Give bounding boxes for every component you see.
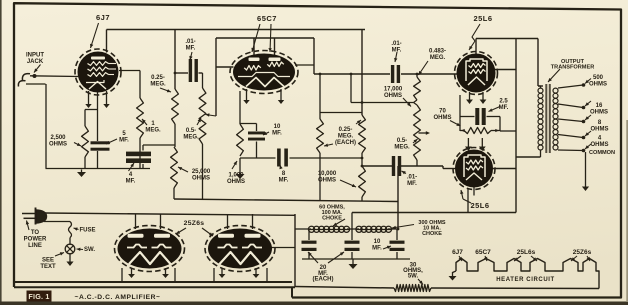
svg-text:OHMS: OHMS [589,82,607,88]
svg-text:MF.: MF. [272,131,282,137]
svg-text:MEG.: MEG. [338,134,354,140]
svg-text:TO: TO [31,230,40,236]
svg-text:MEG.: MEG. [430,55,446,61]
svg-text:1,000: 1,000 [228,173,244,179]
svg-text:65C7: 65C7 [257,14,277,23]
svg-text:MF.: MF. [407,181,417,187]
svg-text:(EACH): (EACH) [335,140,356,146]
svg-text:FUSE: FUSE [79,228,95,234]
svg-text:~A.C.-D.C. AMPLIFIER~: ~A.C.-D.C. AMPLIFIER~ [75,294,161,301]
svg-text:(EACH): (EACH) [313,277,334,283]
svg-text:16: 16 [596,103,603,109]
svg-text:OHMS: OHMS [591,127,609,133]
svg-text:OHMS: OHMS [192,176,210,182]
svg-text:FIG. 1: FIG. 1 [28,292,49,301]
svg-text:MF.: MF. [119,138,129,144]
svg-text:65C7: 65C7 [475,249,491,256]
svg-text:OHMS: OHMS [591,142,609,148]
svg-text:5W.: 5W. [408,274,419,280]
svg-text:MF.: MF. [186,46,196,52]
svg-text:500: 500 [593,75,604,81]
svg-text:HEATER CIRCUIT: HEATER CIRCUIT [496,277,555,283]
svg-text:6J7: 6J7 [96,13,110,22]
svg-text:MEG.: MEG. [150,82,166,88]
svg-text:0.5-: 0.5- [397,138,407,144]
svg-text:10: 10 [274,124,281,130]
svg-text:CHOKE: CHOKE [422,231,442,237]
svg-text:6J7: 6J7 [452,249,463,256]
svg-text:25Z6s: 25Z6s [184,220,205,227]
svg-text:OHMS: OHMS [384,93,402,99]
svg-text:INPUT: INPUT [26,53,44,59]
svg-text:SW.: SW. [84,247,95,253]
svg-text:0.25-: 0.25- [151,75,165,81]
svg-text:LINE: LINE [28,243,42,249]
svg-text:OHMS: OHMS [227,179,245,185]
svg-text:25L6s: 25L6s [517,249,536,256]
svg-text:25Z6s: 25Z6s [573,249,592,256]
svg-text:TEXT: TEXT [40,264,56,270]
svg-text:CHOKE: CHOKE [322,216,342,222]
svg-text:25,000: 25,000 [192,169,211,175]
svg-text:OHMS: OHMS [434,115,452,121]
svg-text:MF.: MF. [372,246,382,252]
svg-text:2,500: 2,500 [50,135,66,141]
svg-text:OHMS: OHMS [318,178,336,184]
svg-text:POWER: POWER [24,237,47,243]
svg-text:SEE: SEE [42,258,54,264]
svg-text:17,000: 17,000 [384,87,403,93]
svg-text:.01-: .01- [185,39,195,45]
svg-text:TRANSFORMER: TRANSFORMER [551,65,595,71]
svg-text:MF.: MF. [279,178,289,184]
svg-text:10,000: 10,000 [318,171,337,177]
svg-text:JACK: JACK [27,59,44,65]
svg-text:OHMS: OHMS [49,142,67,148]
svg-text:MEG.: MEG. [145,128,161,134]
svg-text:10: 10 [374,239,381,245]
svg-text:70: 70 [439,109,446,115]
svg-text:OHMS: OHMS [590,110,608,116]
svg-text:0.483-: 0.483- [429,49,446,55]
svg-text:.01-: .01- [407,175,417,181]
svg-text:COMMON: COMMON [589,150,615,156]
svg-text:2.5: 2.5 [499,99,508,105]
svg-text:0.5-: 0.5- [186,128,196,134]
svg-text:0.25-: 0.25- [339,127,353,133]
svg-text:25L6: 25L6 [473,14,492,23]
svg-text:25L6: 25L6 [470,201,489,210]
svg-text:MEG.: MEG. [394,145,410,151]
svg-text:MF.: MF. [126,179,136,185]
svg-text:MF.: MF. [499,105,509,111]
svg-text:MEG.: MEG. [183,135,199,141]
svg-text:.01-: .01- [391,41,401,47]
